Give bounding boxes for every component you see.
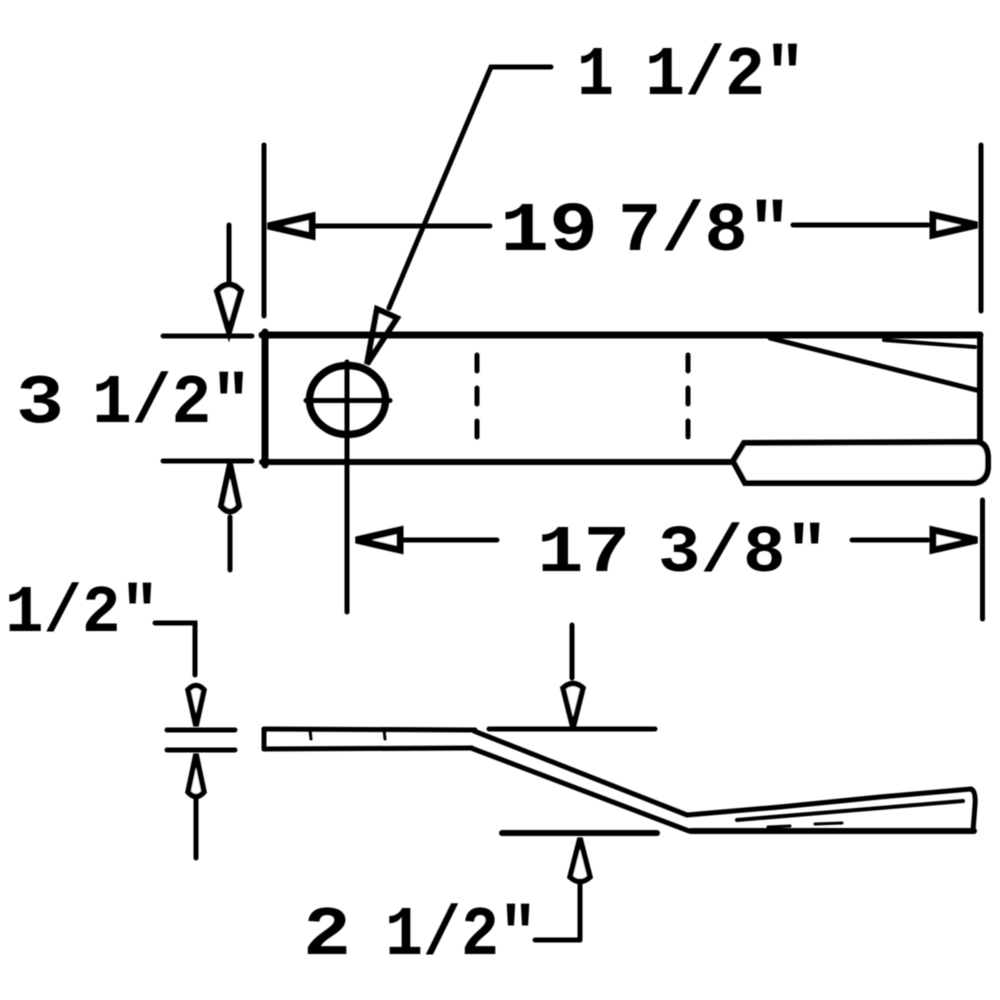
- 19 7/8" right arrowhead: [933, 215, 977, 235]
- blade top view: top edge: [262, 332, 980, 339]
- svg-text:1/2": 1/2": [385, 897, 537, 976]
- side view tip right edge: [971, 789, 975, 831]
- 2 1/2" bottom arrow stem: [578, 883, 583, 940]
- 2 1/2" top arrowhead: [563, 684, 583, 729]
- 1/2" bottom extension line: [167, 748, 235, 753]
- leader line for 1 1/2": [389, 67, 551, 308]
- 3 1/2" top arrowhead: [217, 285, 241, 333]
- blade top view: left edge: [262, 332, 269, 465]
- side view bottom slope: [471, 748, 689, 831]
- hole crosshair horizontal: [306, 398, 390, 403]
- 19 7/8" dimension line left: [312, 224, 490, 229]
- svg-text:7/8": 7/8": [618, 193, 791, 272]
- 1/2" bottom arrow stem: [194, 799, 199, 858]
- svg-text:19: 19: [500, 193, 598, 272]
- 2 1/2" leader to label: [535, 938, 580, 943]
- 19 7/8" dimension line right: [793, 223, 928, 228]
- hole center line vertical: [345, 362, 350, 612]
- svg-text:1: 1: [577, 37, 614, 116]
- svg-text:3: 3: [16, 365, 64, 444]
- blade top view: bottom edge: [262, 459, 733, 465]
- 17 3/8" dimension line left: [399, 538, 497, 543]
- blade tip tab (top view): [733, 442, 988, 483]
- 3 1/2" bottom extension line: [163, 459, 252, 464]
- 2 1/2" bottom extension line: [502, 830, 657, 836]
- 2 1/2" top extension line: [489, 727, 655, 732]
- side view tick mark 1: [310, 730, 311, 739]
- svg-text:3/8": 3/8": [658, 516, 828, 592]
- side view top slope: [474, 731, 687, 815]
- 3 1/2" top extension line: [163, 334, 252, 339]
- blade top view: right edge: [977, 335, 983, 441]
- 19 7/8" right extension line: [979, 145, 984, 311]
- side view tick mark 2: [384, 730, 385, 739]
- cutting edge diagonal: [770, 338, 980, 391]
- dashed fold line 2: [686, 355, 691, 443]
- 19 7/8" left extension line: [262, 145, 267, 316]
- 3 1/2" bottom arrowhead: [221, 464, 239, 512]
- 3 1/2" bottom arrow stem: [228, 517, 233, 570]
- side view top edge: [264, 729, 475, 730]
- side view tip dash 2: [815, 823, 842, 824]
- 17 3/8" left arrowhead: [356, 530, 400, 550]
- side view tip bevel line: [737, 801, 963, 820]
- 1/2" bottom arrowhead: [188, 754, 204, 797]
- svg-text:17: 17: [537, 516, 630, 592]
- side view tip bottom edge: [691, 828, 974, 834]
- side view left edge: [262, 729, 267, 749]
- side view tip top edge: [687, 789, 971, 815]
- 19 7/8" left arrowhead: [268, 216, 312, 236]
- 1/2" top extension line: [167, 728, 235, 733]
- leader arrowhead to hole: [367, 309, 397, 364]
- 17 3/8" right arrowhead: [933, 530, 977, 550]
- 1/2" top arrowhead: [188, 686, 204, 727]
- 2 1/2" bottom arrowhead: [570, 838, 590, 882]
- hole: [310, 366, 386, 435]
- 2 1/2" top arrow stem: [570, 625, 575, 678]
- side view tip dash 1: [768, 826, 790, 827]
- svg-text:1/2": 1/2": [645, 37, 805, 116]
- 17 3/8" dimension line right: [852, 538, 928, 543]
- 3 1/2" top arrow stem: [227, 225, 232, 281]
- 1/2" leader: [155, 623, 195, 675]
- side view bottom edge: [264, 748, 472, 749]
- svg-text:2: 2: [303, 897, 351, 976]
- 17 3/8" right extension line: [980, 500, 985, 619]
- bevel land line: [884, 340, 975, 347]
- svg-text:1/2": 1/2": [92, 365, 251, 444]
- dashed fold line 1: [475, 355, 480, 443]
- svg-text:1/2": 1/2": [5, 576, 159, 652]
